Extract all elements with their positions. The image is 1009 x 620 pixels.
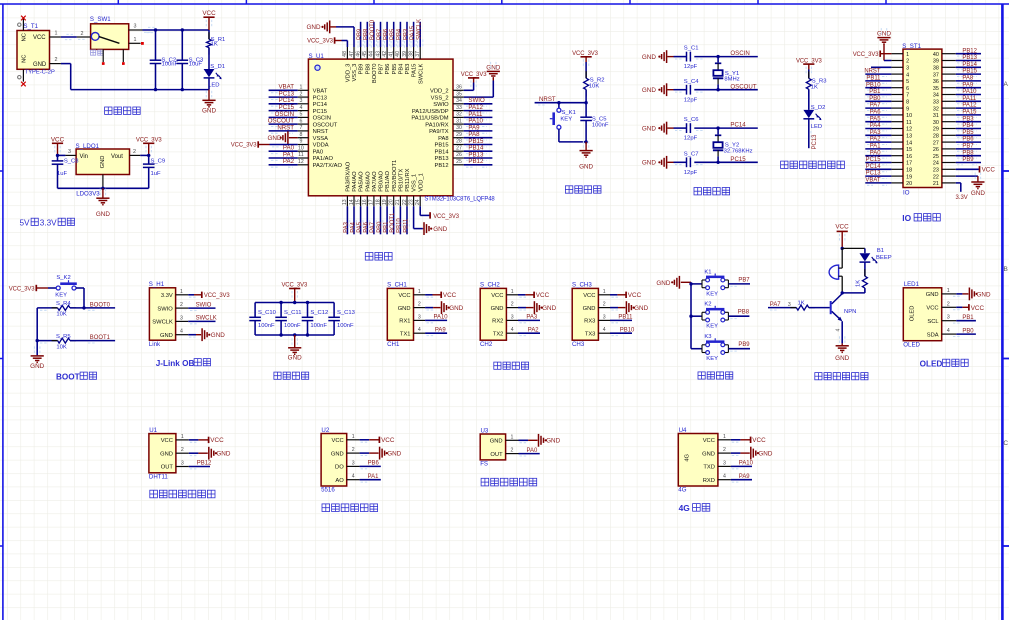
power port VCC_3V3 (reset): [572, 51, 599, 78]
ground GND (crystal row OSCOUT): [642, 83, 674, 96]
svg-text:100nF: 100nF: [310, 323, 327, 329]
svg-text:PB10: PB10: [397, 218, 403, 233]
wire net PC14: [694, 122, 758, 131]
svg-text:1uF: 1uF: [57, 171, 68, 177]
U1 pin 24 VDD_1 to VCC_3V3: [420, 206, 460, 220]
svg-text:15: 15: [906, 147, 912, 153]
svg-text:GND: GND: [486, 65, 500, 72]
title 主芯片: [365, 253, 392, 261]
svg-text:23: 23: [933, 168, 939, 174]
svg-text:S_H1: S_H1: [149, 281, 165, 288]
svg-text:12pF: 12pF: [684, 170, 698, 176]
svg-text:36: 36: [456, 85, 462, 91]
label 开关: [91, 50, 103, 55]
svg-text:17: 17: [906, 161, 912, 167]
svg-text:7: 7: [906, 93, 909, 99]
U4 pin GND to GND: [731, 447, 773, 460]
capacitor S_C7 12pF: [674, 151, 699, 176]
svg-text:2: 2: [133, 149, 136, 155]
svg-text:GND: GND: [490, 439, 503, 445]
U1 pin 9 VDDA to VCC_3V3: [231, 139, 309, 149]
svg-text:S_R3: S_R3: [812, 78, 827, 84]
U1 top wire/net PB7: [377, 22, 383, 48]
junction collector node: [841, 291, 844, 294]
svg-text:PB4: PB4: [397, 28, 403, 40]
svg-text:PA1: PA1: [368, 474, 379, 480]
ST1 left wire/net PA1: [865, 144, 891, 152]
svg-text:NRST: NRST: [277, 124, 294, 131]
svg-text:PA7: PA7: [770, 302, 781, 308]
svg-text:1: 1: [181, 434, 184, 440]
svg-text:PB6: PB6: [962, 137, 974, 143]
title U2 module: [322, 504, 378, 512]
svg-text:GND: GND: [433, 226, 447, 233]
U4 pin stubs: [718, 434, 731, 480]
U1 top wire/net PB8: [364, 22, 370, 48]
svg-text:KEY: KEY: [706, 291, 718, 297]
svg-text:1: 1: [352, 434, 355, 440]
U1 bottom pin names: [346, 160, 425, 192]
junction C2 top: [154, 28, 157, 31]
svg-text:PB15: PB15: [962, 69, 977, 75]
power port VCC (LDO input): [51, 136, 65, 155]
transistor Q1 NPN: [830, 294, 857, 322]
svg-text:PA10/RX: PA10/RX: [425, 122, 448, 128]
svg-text:VCC: VCC: [982, 167, 996, 174]
svg-text:1uF: 1uF: [151, 171, 162, 177]
svg-text:PA7: PA7: [370, 222, 376, 233]
U1 right wire/net PB12: [464, 158, 493, 167]
svg-text:SWCLK: SWCLK: [417, 19, 423, 40]
svg-text:B1: B1: [877, 248, 884, 254]
svg-text:VSSA: VSSA: [313, 136, 329, 142]
svg-text:PA4/AO: PA4/AO: [352, 171, 358, 192]
svg-text:PA10: PA10: [434, 315, 449, 321]
capacitor S_C6 12pF: [674, 117, 699, 142]
svg-text:1K: 1K: [856, 280, 862, 287]
sheet border right: [1001, 4, 1004, 620]
svg-text:SDA: SDA: [927, 332, 939, 338]
title 5V转3.3V电路: [20, 218, 75, 227]
svg-text:S_CH2: S_CH2: [480, 282, 500, 289]
title 4G模块: [679, 503, 710, 513]
LDO pin 3: [65, 149, 76, 155]
svg-text:28: 28: [933, 134, 939, 140]
svg-text:GND: GND: [387, 451, 401, 458]
svg-text:GND: GND: [977, 292, 991, 299]
svg-text:4G: 4G: [685, 453, 691, 461]
CH2 pin3 wire net PA3: [518, 315, 540, 323]
svg-text:4: 4: [906, 72, 909, 78]
U1 top wire/net PB9: [357, 22, 363, 48]
T1 pin 1 VCC: [50, 31, 61, 37]
U1 top wire/net PB5: [390, 22, 396, 48]
wire rail to K2: [691, 315, 702, 317]
ST1 right wire/net PB12: [956, 48, 981, 56]
svg-text:PB4: PB4: [962, 123, 974, 129]
svg-text:10K: 10K: [56, 344, 67, 350]
ST1 left wire/net PA5: [865, 116, 891, 124]
U1 bottom wire/net PB10: [397, 206, 403, 234]
ST1 right wire/net PB3: [956, 116, 981, 124]
sheet border top: [0, 3, 1009, 5]
svg-text:RXD: RXD: [703, 478, 715, 484]
CH1 pin1 to VCC: [425, 292, 457, 299]
junction NRST/key: [557, 101, 560, 104]
svg-text:3: 3: [511, 314, 514, 320]
svg-text:1: 1: [947, 288, 950, 294]
S_ST1 left pin stubs: [891, 54, 903, 183]
svg-text:PC13: PC13: [812, 134, 818, 150]
svg-text:VCC: VCC: [583, 293, 595, 299]
svg-text:3: 3: [181, 461, 184, 467]
svg-text:DO: DO: [335, 465, 344, 471]
U1 pin stubs: [176, 434, 189, 467]
svg-text:GND: GND: [702, 451, 715, 457]
junction alarm top: [841, 247, 844, 250]
svg-text:VCC: VCC: [628, 292, 642, 299]
ST1 right wire/net PB9: [956, 157, 981, 165]
resistor S_R2 10K: [584, 71, 605, 103]
svg-text:VCC_3V3: VCC_3V3: [204, 293, 231, 299]
S_ST1 right pin stubs: [942, 54, 956, 183]
display LED1 OLED body: [903, 281, 941, 348]
svg-text:LED: LED: [811, 124, 822, 130]
svg-text:100nF: 100nF: [162, 62, 179, 68]
svg-text:100nF: 100nF: [592, 122, 609, 128]
svg-text:PA15: PA15: [412, 64, 418, 78]
svg-text:3.3V: 3.3V: [161, 293, 173, 299]
svg-text:4: 4: [299, 105, 302, 111]
svg-text:PB3: PB3: [405, 64, 411, 75]
U1 top wire/net PB6: [383, 22, 389, 48]
svg-text:PB10: PB10: [866, 82, 881, 88]
connector S_CH1 body: [387, 282, 413, 348]
svg-text:S_K2: S_K2: [56, 275, 70, 281]
svg-text:GND: GND: [971, 190, 985, 197]
title 程序运行指示灯: [781, 161, 845, 168]
junction C5/key bottom: [584, 140, 587, 143]
svg-text:VSS_2: VSS_2: [431, 95, 449, 101]
U1 right wire/net PA10: [464, 118, 493, 127]
svg-text:PC14: PC14: [313, 102, 328, 108]
module U3 (FS) body: [480, 427, 505, 467]
svg-text:OUT: OUT: [161, 465, 174, 471]
svg-text:Link: Link: [149, 341, 161, 348]
svg-text:9: 9: [299, 139, 302, 145]
LED S_D1: [204, 64, 225, 89]
U2 pin AO wire net PA1: [360, 474, 381, 482]
svg-text:PA3: PA3: [526, 315, 537, 321]
U1 pin 23 VSS_1 to GND: [414, 206, 448, 235]
svg-text:GND: GND: [202, 108, 216, 115]
svg-text:PB6: PB6: [368, 461, 380, 467]
filter junctions: [279, 301, 309, 337]
SW1 pin 2: [77, 31, 91, 39]
svg-text:GND: GND: [216, 451, 230, 458]
U1 right wire/net PB13: [464, 151, 493, 160]
svg-text:LED: LED: [208, 83, 219, 89]
svg-text:PB12: PB12: [434, 163, 448, 169]
junction VCC/C8: [56, 154, 59, 157]
svg-text:12pF: 12pF: [684, 97, 698, 103]
svg-text:VCC_3V3: VCC_3V3: [9, 286, 36, 292]
junction crystal PC14: [716, 126, 719, 129]
svg-text:PB1: PB1: [383, 221, 389, 233]
svg-text:VSS_3: VSS_3: [352, 64, 358, 82]
svg-text:32: 32: [933, 106, 939, 112]
svg-text:2: 2: [55, 57, 58, 63]
ST1 right wire/net PB13: [956, 55, 981, 63]
svg-text:8MHz: 8MHz: [724, 77, 739, 83]
svg-text:IO: IO: [902, 213, 911, 223]
svg-text:GND: GND: [398, 306, 411, 312]
title IO拓展口: [902, 213, 940, 223]
svg-text:PA5: PA5: [870, 116, 881, 122]
ST1 left wire/net PB10: [865, 82, 891, 90]
svg-text:12: 12: [906, 127, 912, 133]
svg-text:29: 29: [456, 132, 462, 138]
svg-text:PB1/AO: PB1/AO: [385, 170, 391, 191]
wire T1 pin 2: [50, 57, 71, 63]
svg-text:OLED: OLED: [903, 342, 920, 349]
connector S_T1 TYPE-C-2P: [17, 23, 55, 75]
header S_H1 J-Link body: [149, 281, 176, 348]
svg-text:S_C9: S_C9: [151, 158, 166, 164]
svg-text:25: 25: [933, 154, 939, 160]
S_ST1 pin 3 wire: [871, 67, 891, 69]
svg-text:4: 4: [723, 474, 726, 480]
power port VCC: [202, 10, 216, 30]
svg-text:TX2: TX2: [493, 331, 504, 337]
svg-text:SWIO: SWIO: [196, 302, 212, 308]
SW1 bottom pin b: [122, 49, 125, 65]
power port VCC_3V3 right of U1 (VDD_2): [461, 72, 488, 90]
capacitor S_C12 100nF: [302, 303, 329, 336]
svg-text:PA9: PA9: [962, 82, 973, 88]
ST1 right wire/net PA8: [956, 76, 981, 84]
svg-text:PA8: PA8: [962, 76, 973, 82]
module U4 (4G) body: [678, 427, 718, 494]
svg-text:OUT: OUT: [490, 452, 503, 458]
svg-text:PA9/TX: PA9/TX: [429, 129, 449, 135]
svg-text:BOOT: BOOT: [56, 372, 80, 381]
svg-text:GND: GND: [491, 306, 504, 312]
svg-text:8: 8: [299, 132, 302, 138]
ST1 left wire/net VBAT: [865, 178, 891, 186]
ST1 left wire/net PC13: [865, 171, 891, 179]
svg-text:PB11: PB11: [866, 76, 881, 82]
svg-text:VDDA: VDDA: [313, 143, 329, 149]
ground GND (alarm): [835, 336, 849, 362]
U1 top wire/net PA15: [410, 22, 416, 48]
svg-text:PC15: PC15: [866, 157, 882, 163]
U1 right wire/net PB15: [464, 138, 493, 147]
svg-text:3: 3: [299, 98, 302, 104]
svg-text:3.3V: 3.3V: [956, 195, 968, 201]
ST1 left wire/net PA7: [865, 103, 891, 111]
svg-text:GND: GND: [634, 305, 648, 312]
U1 bottom wire/net PA5: [357, 206, 363, 234]
wire GND rail bottom: [71, 64, 209, 90]
svg-text:PB10: PB10: [620, 327, 635, 333]
svg-text:GND: GND: [160, 333, 173, 339]
CH3 pin stubs: [598, 289, 610, 333]
T1 bottom pin with no-ERC cross: [18, 69, 26, 86]
svg-text:PB7: PB7: [962, 144, 973, 150]
U3 pin stubs: [506, 434, 519, 453]
H1 pin1 to VCC_3V3: [188, 292, 230, 299]
svg-text:S_CH3: S_CH3: [572, 282, 592, 289]
svg-text:7: 7: [299, 125, 302, 131]
svg-text:PC15: PC15: [730, 156, 746, 163]
power port VCC_3V3 (run LED): [796, 58, 823, 78]
svg-text:VCC: VCC: [443, 292, 457, 299]
wire net 3.3V (ST1 pin21): [956, 183, 968, 201]
ground GND (crystal row PC15): [642, 156, 674, 169]
S_ST1 right pin numbers: [933, 52, 939, 187]
svg-text:PB7: PB7: [738, 277, 749, 283]
svg-text:BOOT0: BOOT0: [372, 64, 378, 84]
svg-text:PB9: PB9: [359, 64, 365, 75]
svg-text:PB7: PB7: [379, 64, 385, 75]
U1 pin 4 PC15 wire/net PC15: [269, 104, 309, 113]
junction rail K2: [689, 315, 692, 318]
svg-text:8: 8: [906, 100, 909, 106]
CH3 pin2 to GND: [610, 301, 649, 314]
wire net BOOT1: [70, 335, 115, 343]
U1 pin OUT wire net PB12: [189, 461, 212, 469]
svg-text:PA7/AO: PA7/AO: [372, 171, 378, 192]
U1 bottom wire/net PA7: [370, 206, 376, 234]
capacitor S_C4 12pF: [674, 79, 700, 104]
svg-text:PA1/AO: PA1/AO: [313, 156, 334, 162]
svg-text:PB2/BOOT1: PB2/BOOT1: [392, 160, 398, 192]
svg-text:KEY: KEY: [560, 117, 572, 123]
U2 pin GND to GND: [360, 447, 402, 460]
svg-text:2: 2: [511, 302, 514, 308]
ground GND (crystal row OSCIN): [642, 50, 674, 63]
push button K2 KEY: [702, 302, 728, 330]
ST1 right wire/net PA11: [956, 96, 981, 104]
junction VCC_3V3/C9: [147, 154, 150, 157]
svg-text:9: 9: [906, 106, 909, 112]
svg-text:NC: NC: [22, 55, 28, 63]
svg-text:Vin: Vin: [80, 154, 88, 160]
svg-text:VCC: VCC: [33, 35, 46, 41]
wire LDO ground rail: [58, 187, 149, 189]
svg-text:S_K1: S_K1: [562, 110, 576, 116]
wire key to net PB7: [728, 277, 750, 286]
title 串口电路: [494, 362, 529, 369]
sheet zone ticks right: [1002, 171, 1009, 546]
connector S_ST1 IO header body: [902, 43, 942, 196]
svg-text:32: 32: [456, 112, 462, 118]
svg-text:10K: 10K: [56, 311, 67, 317]
svg-text:CH3: CH3: [572, 341, 585, 348]
U2 pin VCC to VCC: [360, 437, 395, 444]
crystal S_Y1 8MHz: [713, 57, 740, 90]
push button K1 KEY: [702, 269, 728, 297]
junction crystal OSCIN: [716, 55, 719, 58]
U1 bottom wire/net PB11: [403, 206, 409, 234]
svg-text:2: 2: [511, 448, 514, 454]
svg-text:GND: GND: [449, 305, 463, 312]
svg-text:PA2/TX/AO: PA2/TX/AO: [313, 163, 343, 169]
svg-text:BEEP: BEEP: [876, 255, 892, 261]
junction rail K1: [689, 282, 692, 285]
svg-text:PA2: PA2: [870, 137, 881, 143]
U1 pin VCC to VCC: [189, 437, 224, 444]
svg-text:GND: GND: [758, 451, 772, 458]
svg-text:NC: NC: [22, 33, 28, 41]
svg-text:VCC: VCC: [210, 437, 224, 444]
svg-text:PC15: PC15: [313, 109, 327, 115]
svg-text:SWCLK: SWCLK: [418, 63, 424, 84]
svg-text:PB5: PB5: [390, 28, 396, 40]
CH3 pin1 to VCC: [610, 292, 642, 299]
svg-text:33: 33: [933, 100, 939, 106]
title 声光报警电路: [815, 373, 868, 380]
svg-text:PB3: PB3: [403, 28, 409, 40]
svg-text:5V: 5V: [20, 218, 31, 227]
CH1 pin4 wire net PA9: [425, 327, 447, 335]
svg-text:SWCLK: SWCLK: [196, 316, 217, 322]
junction key/BOOT0: [82, 306, 85, 309]
svg-text:PB1: PB1: [869, 89, 881, 95]
ST1 right wire/net PB8: [956, 150, 981, 158]
svg-text:4: 4: [418, 327, 421, 333]
wire net PC15: [694, 156, 758, 165]
svg-text:PA10: PA10: [739, 461, 754, 467]
svg-text:GND: GND: [642, 126, 656, 133]
ST1 right wire/net PA10: [956, 89, 981, 97]
svg-text:PB12: PB12: [468, 158, 484, 165]
svg-text:2: 2: [180, 302, 183, 308]
svg-text:27: 27: [456, 145, 462, 151]
svg-text:VBAT: VBAT: [313, 89, 328, 95]
svg-text:GND: GND: [100, 156, 106, 169]
svg-text:S_D1: S_D1: [210, 64, 225, 70]
svg-text:36: 36: [933, 79, 939, 85]
wire net OSCOUT: [694, 83, 758, 92]
svg-text:NRST: NRST: [313, 129, 329, 135]
junction ground rail: [101, 187, 104, 190]
svg-text:PB12: PB12: [962, 48, 977, 54]
U1 top wire/net PB3: [403, 22, 409, 48]
U2 pin DO wire net PB6: [360, 461, 381, 469]
svg-text:S_R4: S_R4: [56, 301, 71, 307]
U4 pin VCC to VCC: [731, 437, 766, 444]
crystal S_Y2 32.768KHz: [713, 128, 753, 162]
svg-text:AO: AO: [335, 478, 344, 484]
svg-text:GND: GND: [656, 280, 670, 287]
U1 right wire/net PA8: [464, 131, 493, 140]
connector S_CH3 body: [572, 282, 598, 348]
title 按键电路: [698, 372, 733, 379]
regulator S_LDO1 LDO3V3: [76, 143, 130, 198]
svg-text:100nF: 100nF: [258, 323, 275, 329]
ST1 right wire/net PB4: [956, 123, 981, 131]
svg-text:PA15: PA15: [410, 25, 416, 40]
LDO pin 1 GND: [102, 175, 104, 189]
CH3 pin3 wire net PB11: [610, 315, 633, 323]
svg-text:12pF: 12pF: [684, 136, 698, 142]
title U4 module: [0, 0, 1, 1]
CH1 pin2 to GND: [425, 301, 464, 314]
CH1 pin3 wire net PA10: [425, 315, 448, 323]
svg-text:PA10: PA10: [962, 89, 977, 95]
